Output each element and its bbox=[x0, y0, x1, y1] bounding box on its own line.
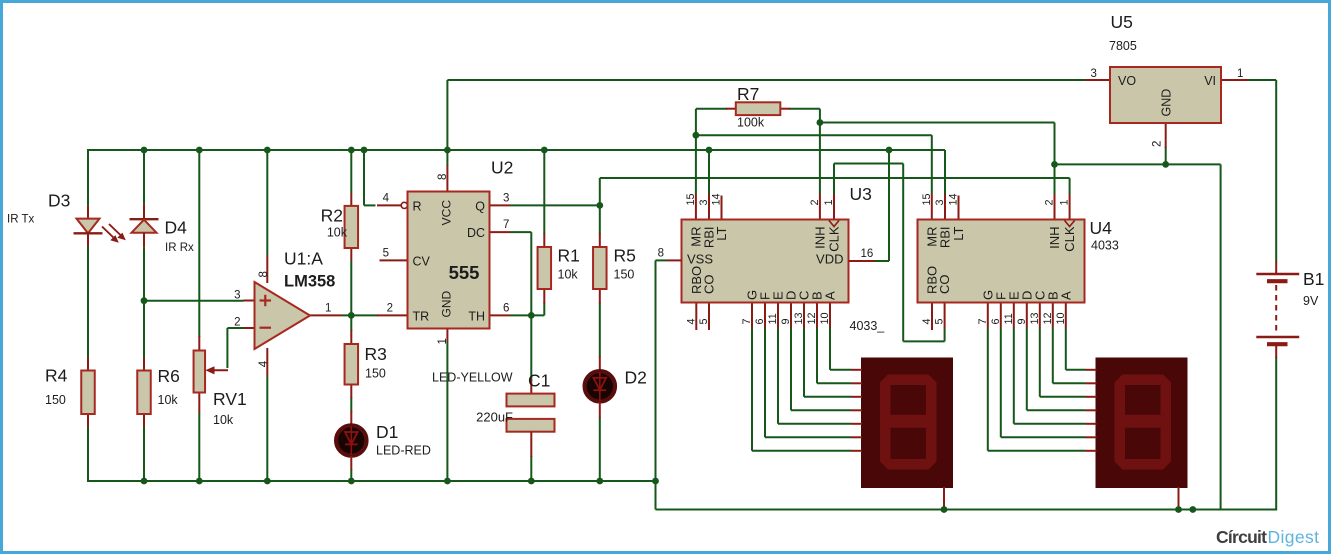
CircuitDigest logo bbox=[1216, 527, 1319, 547]
svg-text:R5: R5 bbox=[614, 246, 636, 266]
resistor R4 bbox=[45, 357, 95, 427]
svg-text:9V: 9V bbox=[1303, 294, 1319, 308]
resistor R3 bbox=[345, 330, 387, 399]
svg-text:IR Rx: IR Rx bbox=[165, 242, 194, 254]
svg-text:5: 5 bbox=[934, 318, 946, 324]
svg-text:D1: D1 bbox=[376, 422, 398, 442]
wire battery negative column bbox=[1275, 357, 1277, 511]
node ground rail junction x=944 bbox=[941, 506, 948, 513]
battery B1 9V bbox=[1256, 261, 1324, 358]
svg-text:150: 150 bbox=[365, 367, 386, 381]
node VCC rail junction x=544.3 bbox=[541, 147, 548, 154]
wire carry elbow to U4 CO pin 5 bbox=[903, 340, 944, 342]
svg-text:9: 9 bbox=[780, 318, 792, 324]
svg-text:150: 150 bbox=[45, 393, 66, 407]
svg-text:8: 8 bbox=[437, 174, 449, 180]
svg-text:A: A bbox=[1058, 291, 1073, 300]
svg-text:GND: GND bbox=[1160, 89, 1174, 117]
svg-text:2: 2 bbox=[234, 317, 240, 329]
wire D4 cathode node to op-amp pin 3 bbox=[143, 247, 145, 300]
svg-text:LT: LT bbox=[714, 226, 729, 240]
wire MR line to U4 MR pin 15 bbox=[696, 134, 932, 136]
svg-text:D4: D4 bbox=[165, 218, 188, 238]
wire op-amp pin 4 to ground rail bbox=[266, 376, 268, 481]
node junction (1165.7,164.4) bbox=[1162, 161, 1169, 168]
resistor R5 bbox=[593, 233, 636, 304]
wire 555 TH pin 6 to R1 bottom bbox=[510, 314, 544, 316]
svg-text:CO: CO bbox=[937, 275, 952, 295]
node VCC rail junction x=889 bbox=[886, 147, 893, 154]
svg-text:10: 10 bbox=[819, 312, 831, 324]
node ground rail junction x=531.3 bbox=[528, 478, 535, 485]
node ground rail junction x=351.3 bbox=[348, 478, 355, 485]
svg-text:R: R bbox=[413, 200, 422, 214]
wire VCC rail drop to U3 RBI pin 3 bbox=[708, 150, 710, 194]
svg-text:Digest: Digest bbox=[1268, 527, 1320, 547]
svg-text:CLK: CLK bbox=[1062, 226, 1077, 252]
node ground rail junction x=199.3 bbox=[196, 478, 203, 485]
svg-text:13: 13 bbox=[793, 312, 805, 324]
svg-text:10k: 10k bbox=[558, 268, 579, 282]
wire INH line to U4 INH pin 2 bbox=[820, 122, 1055, 124]
wire R2 bottom to TR node bbox=[350, 261, 352, 332]
svg-text:GND: GND bbox=[440, 291, 454, 318]
LED D1 red bbox=[336, 411, 431, 470]
svg-text:U4: U4 bbox=[1090, 218, 1113, 238]
wire U4 segment B to right display bbox=[1052, 328, 1054, 384]
wire R4 bottom to ground rail bbox=[87, 427, 89, 482]
svg-text:4: 4 bbox=[258, 360, 270, 367]
svg-text:6: 6 bbox=[990, 318, 1002, 324]
svg-text:4: 4 bbox=[383, 193, 390, 205]
svg-text:Q: Q bbox=[475, 200, 485, 214]
wire 555 DC pin 7 to TH junction bbox=[510, 231, 531, 233]
resistor R7 100k bbox=[726, 84, 790, 130]
svg-text:9: 9 bbox=[1016, 318, 1028, 324]
node ground rail junction x=144 bbox=[141, 478, 148, 485]
wire op-amp output to 555 TR node bbox=[342, 314, 378, 316]
svg-text:1: 1 bbox=[437, 338, 449, 344]
wire node riser to U4 clock line bbox=[599, 178, 601, 205]
svg-text:100k: 100k bbox=[737, 116, 765, 130]
wire VCC rail drop to U4 RBI pin 3 bbox=[944, 150, 946, 194]
node VCC rail junction x=267.3 bbox=[264, 147, 271, 154]
svg-text:U3: U3 bbox=[850, 184, 872, 204]
node ground rail junction x=447.4 bbox=[444, 478, 451, 485]
LED D3 IR transmitter bbox=[7, 191, 126, 247]
node VCC rail junction x=351.3 bbox=[348, 147, 355, 154]
wire U3 segment D to left display bbox=[790, 328, 792, 411]
node junction (351.3,315.4) bbox=[348, 312, 355, 319]
wire VCC rail drop to R1 bbox=[543, 150, 545, 234]
svg-text:LED-RED: LED-RED bbox=[376, 444, 431, 458]
wire ground line from U4 INH to right riser bbox=[1055, 163, 1221, 165]
svg-text:R3: R3 bbox=[365, 344, 387, 364]
svg-text:10: 10 bbox=[1055, 312, 1067, 324]
wire U4 segment E to right display bbox=[1013, 328, 1015, 424]
wire U4 segment A to right display bbox=[1065, 328, 1067, 370]
resistor R6 bbox=[137, 357, 180, 427]
wire ground rail right section bbox=[656, 509, 1277, 511]
wire 555 output to U4 CLK pin 1 bbox=[600, 177, 1070, 179]
node ground rail junction x=655.5 bbox=[652, 478, 659, 485]
node junction (144,300.7) bbox=[141, 297, 148, 304]
wire 555 output Q to node bbox=[510, 204, 600, 206]
svg-text:B1: B1 bbox=[1303, 269, 1324, 289]
seven segment display right digit bbox=[1086, 358, 1188, 510]
svg-text:555: 555 bbox=[449, 262, 480, 283]
svg-text:2: 2 bbox=[809, 199, 821, 205]
wire U5 GND pin 2 drop bbox=[1165, 147, 1167, 164]
wire U3 segment E to left display bbox=[777, 328, 779, 424]
node VCC rail junction x=199.3 bbox=[196, 147, 203, 154]
wire D1 cathode to ground rail bbox=[350, 469, 352, 481]
svg-text:LED-YELLOW: LED-YELLOW bbox=[432, 371, 513, 385]
svg-text:10k: 10k bbox=[158, 393, 179, 407]
svg-text:DC: DC bbox=[467, 226, 485, 240]
svg-text:2: 2 bbox=[387, 303, 393, 315]
svg-text:13: 13 bbox=[1029, 312, 1041, 324]
wire U4 segment G to right display bbox=[987, 328, 989, 451]
svg-text:IR Tx: IR Tx bbox=[7, 214, 35, 226]
svg-text:6: 6 bbox=[503, 303, 509, 315]
wire R5 column from output node bbox=[599, 205, 601, 234]
svg-text:INH: INH bbox=[1047, 227, 1062, 249]
timer U2 555 bbox=[377, 158, 513, 345]
wire U4 segment C to right display bbox=[1039, 328, 1041, 397]
svg-text:1: 1 bbox=[823, 199, 835, 205]
svg-text:D2: D2 bbox=[625, 368, 647, 388]
wire TH junction down to C1 bbox=[530, 315, 532, 380]
node VCC rail junction x=709 bbox=[706, 147, 713, 154]
wire R6 bottom to ground rail bbox=[143, 427, 145, 481]
wire U3 segment C to left display bbox=[803, 328, 805, 397]
svg-text:4: 4 bbox=[921, 318, 933, 324]
svg-text:150: 150 bbox=[614, 268, 635, 282]
svg-text:1: 1 bbox=[1237, 68, 1243, 80]
svg-text:1: 1 bbox=[1059, 199, 1071, 205]
wire R7 left lead and riser to U3 MR pin 15 bbox=[696, 108, 727, 110]
svg-text:2: 2 bbox=[1044, 199, 1056, 205]
svg-text:3: 3 bbox=[698, 199, 710, 205]
svg-text:15: 15 bbox=[685, 193, 697, 205]
counter U3 4033 bbox=[682, 193, 849, 330]
wire U3 CLK pin 1 riser bbox=[833, 164, 835, 195]
node VCC rail junction x=364 bbox=[361, 147, 368, 154]
svg-text:10k: 10k bbox=[213, 413, 234, 427]
wire U4 carry-out to U3 clock bridge bbox=[834, 163, 903, 165]
svg-text:3: 3 bbox=[234, 290, 240, 302]
wire U3 segment G to left display bbox=[751, 328, 753, 451]
svg-text:LT: LT bbox=[951, 226, 966, 240]
wire U3 segment B to left display bbox=[816, 328, 818, 384]
regulator U5 7805 bbox=[1085, 12, 1248, 148]
node VCC rail junction x=447.4 bbox=[444, 147, 451, 154]
node ground rail junction x=599.8 bbox=[596, 478, 603, 485]
svg-text:TH: TH bbox=[468, 310, 485, 324]
node junction (531.3,315.4) bbox=[528, 312, 535, 319]
svg-text:7: 7 bbox=[741, 318, 753, 324]
svg-text:11: 11 bbox=[1003, 313, 1015, 324]
wire node down to R6 bbox=[143, 301, 145, 357]
node junction (1054.5,164.4) bbox=[1051, 161, 1058, 168]
svg-text:15: 15 bbox=[921, 193, 933, 205]
svg-text:CO: CO bbox=[702, 275, 717, 295]
svg-text:CLK: CLK bbox=[827, 226, 842, 252]
svg-text:8: 8 bbox=[258, 271, 270, 277]
wire 555 GND pin 1 to ground rail bbox=[446, 341, 448, 481]
wire U3 segment A to left display bbox=[829, 328, 831, 370]
wire R5 bottom to D2 bbox=[599, 303, 601, 358]
svg-text:10k: 10k bbox=[327, 226, 348, 240]
svg-text:R6: R6 bbox=[158, 366, 180, 386]
svg-text:14: 14 bbox=[948, 193, 960, 205]
svg-text:A: A bbox=[823, 291, 838, 300]
svg-text:VCC: VCC bbox=[440, 200, 454, 226]
svg-text:2: 2 bbox=[1152, 141, 1164, 147]
svg-text:3: 3 bbox=[503, 193, 509, 205]
wire R7 right lead and riser to U3 INH pin 2 bbox=[789, 108, 820, 110]
wire VCC rail drop to R2 bbox=[350, 150, 352, 193]
wire U3 segment F to left display bbox=[764, 328, 766, 438]
wire ground rail left section bbox=[88, 480, 656, 482]
svg-text:11: 11 bbox=[767, 313, 779, 324]
svg-text:12: 12 bbox=[1042, 312, 1054, 324]
wire VCC rail drop to RV1 bbox=[198, 150, 200, 337]
svg-text:R2: R2 bbox=[321, 206, 343, 226]
node ground rail junction x=267.3 bbox=[264, 478, 271, 485]
wire C1 bottom to ground rail bbox=[530, 456, 532, 481]
svg-text:D3: D3 bbox=[48, 191, 70, 211]
wire RV1 bottom to ground rail bbox=[198, 413, 200, 482]
resistor R1 bbox=[538, 233, 580, 304]
node junction (819.9,122.5) bbox=[817, 119, 824, 126]
svg-text:4033: 4033 bbox=[1091, 239, 1119, 253]
wire D3 to R4 bbox=[87, 246, 89, 357]
svg-text:16: 16 bbox=[861, 248, 874, 260]
node junction (599.8,205.4) bbox=[596, 202, 603, 209]
svg-text:U2: U2 bbox=[491, 158, 513, 178]
wire U3 VSS pin 8 column to ground bbox=[656, 259, 668, 261]
svg-text:3: 3 bbox=[1091, 68, 1097, 80]
svg-text:5: 5 bbox=[698, 318, 710, 324]
seven segment display left digit bbox=[851, 358, 953, 510]
svg-text:1: 1 bbox=[325, 303, 331, 315]
wire right ground riser to bottom rail bbox=[1220, 164, 1222, 509]
svg-text:6: 6 bbox=[754, 318, 766, 324]
svg-text:VO: VO bbox=[1118, 74, 1136, 88]
wire D2 cathode to ground rail bbox=[599, 417, 601, 481]
capacitor C1 220uF bbox=[476, 371, 554, 458]
wire U3 VDD pin 16 riser to VCC rail bbox=[888, 150, 890, 261]
svg-text:7: 7 bbox=[503, 219, 509, 231]
wire U4 segment D to right display bbox=[1026, 328, 1028, 411]
svg-text:220uF: 220uF bbox=[476, 410, 513, 425]
svg-text:Círcuit: Círcuit bbox=[1216, 527, 1267, 547]
node ground rail junction x=1178.5 bbox=[1175, 506, 1182, 513]
node junction (695.9,135.2) bbox=[693, 132, 700, 139]
photodiode D4 IR receiver bbox=[130, 205, 195, 254]
svg-text:U1:A: U1:A bbox=[284, 249, 323, 269]
node ground rail junction x=1192.8 bbox=[1189, 506, 1196, 513]
wire 555 VCC column to 7805 output line bbox=[446, 80, 448, 166]
svg-text:TR: TR bbox=[413, 310, 430, 324]
svg-text:R4: R4 bbox=[45, 366, 68, 386]
svg-text:7805: 7805 bbox=[1109, 39, 1137, 53]
U3 VDD pin 16 bbox=[849, 260, 876, 262]
svg-text:C1: C1 bbox=[528, 371, 550, 391]
LED D2 yellow bbox=[432, 356, 647, 418]
wire U4 segment F to right display bbox=[1000, 328, 1002, 438]
svg-text:U5: U5 bbox=[1111, 12, 1133, 32]
svg-text:4: 4 bbox=[685, 318, 697, 324]
svg-text:3: 3 bbox=[934, 199, 946, 205]
wire R1 bottom drop to TH junction bbox=[543, 303, 545, 316]
resistor R2 bbox=[321, 193, 358, 261]
wire R3 bottom to D1 bbox=[350, 398, 352, 413]
svg-text:R1: R1 bbox=[558, 246, 580, 266]
svg-text:4033_: 4033_ bbox=[850, 319, 886, 333]
svg-text:R7: R7 bbox=[737, 84, 759, 104]
svg-text:12: 12 bbox=[806, 312, 818, 324]
svg-text:VI: VI bbox=[1204, 74, 1216, 88]
svg-text:INH: INH bbox=[812, 227, 827, 249]
wire U5 VI pin 1 to battery positive bbox=[1248, 79, 1276, 81]
svg-text:14: 14 bbox=[711, 193, 723, 205]
wire VCC rail drop to D4 bbox=[143, 150, 145, 205]
potentiometer RV1 bbox=[194, 336, 247, 427]
node VCC rail junction x=144 bbox=[141, 147, 148, 154]
wire VCC rail drop to 555 reset pin 4 bbox=[363, 150, 365, 205]
svg-text:RV1: RV1 bbox=[213, 389, 247, 409]
svg-text:5: 5 bbox=[383, 248, 389, 260]
wire RV1 wiper to op-amp pin 2 bbox=[226, 328, 228, 368]
op-amp U1:A LM358 bbox=[234, 249, 342, 377]
U3 VSS pin 8 bbox=[667, 259, 682, 261]
wire VCC rail drop to D3 bbox=[87, 149, 89, 206]
svg-text:CV: CV bbox=[413, 255, 431, 269]
svg-text:8: 8 bbox=[658, 248, 664, 260]
wire VCC rail drop to op-amp pin 8 bbox=[266, 150, 268, 255]
wire +5V line from 555 VCC to U5 VO bbox=[447, 79, 1085, 81]
svg-text:VDD: VDD bbox=[816, 252, 843, 267]
svg-text:VSS: VSS bbox=[687, 252, 713, 267]
svg-text:LM358: LM358 bbox=[284, 273, 335, 291]
svg-text:7: 7 bbox=[977, 318, 989, 324]
counter U4 4033 bbox=[918, 193, 1085, 330]
wire VCC top rail bbox=[88, 149, 945, 151]
